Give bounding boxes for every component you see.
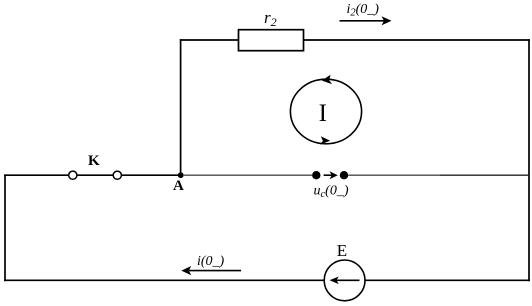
capacitor left plate dot bbox=[312, 171, 320, 179]
wire inner vertical (corner down to node A) bbox=[180, 39, 182, 175]
wire bottom left segment bbox=[4, 279, 324, 281]
resistor r2 body bbox=[239, 30, 304, 51]
capacitor uc arrow bbox=[324, 171, 338, 179]
switch K blade (line between contacts) bbox=[77, 174, 113, 176]
wire bottom right segment bbox=[365, 279, 530, 281]
wire middle left segment bbox=[4, 174, 69, 176]
wire middle gray segment (A to capacitor) bbox=[183, 174, 312, 176]
wire top-right horizontal (r2 to right edge) bbox=[304, 39, 530, 41]
source E circle bbox=[324, 260, 365, 301]
svg-text:uc(0_): uc(0_) bbox=[314, 183, 349, 200]
current loop top arrowhead (counterclockwise) bbox=[322, 75, 332, 84]
svg-text:i2(0_): i2(0_) bbox=[347, 2, 380, 19]
wire middle segment (to right edge) bbox=[440, 174, 529, 176]
svg-text:i(0_): i(0_) bbox=[197, 254, 225, 269]
wire left vertical edge bbox=[4, 174, 6, 281]
arrow i2(0_) bbox=[340, 16, 392, 25]
wire middle (switch to node A) bbox=[122, 174, 181, 176]
switch K contact circle right bbox=[113, 171, 121, 179]
arrow i(0_) bbox=[181, 266, 241, 275]
wire right vertical edge bbox=[528, 39, 530, 281]
current loop I circle bbox=[290, 79, 361, 144]
switch K contact circle left bbox=[69, 171, 77, 179]
capacitor right plate dot bbox=[340, 171, 348, 179]
svg-text:K: K bbox=[88, 153, 100, 169]
svg-text:r2: r2 bbox=[264, 8, 277, 29]
svg-text:E: E bbox=[337, 241, 347, 260]
svg-text:A: A bbox=[173, 178, 184, 194]
wire top-left horizontal (corner to r2) bbox=[180, 39, 239, 41]
node A junction dot bbox=[178, 172, 184, 178]
svg-text:I: I bbox=[319, 100, 327, 127]
current loop bottom arrowhead bbox=[320, 136, 330, 144]
wire middle gray segment (capacitor to right edge) bbox=[348, 174, 440, 176]
source E internal arrow bbox=[330, 277, 360, 285]
